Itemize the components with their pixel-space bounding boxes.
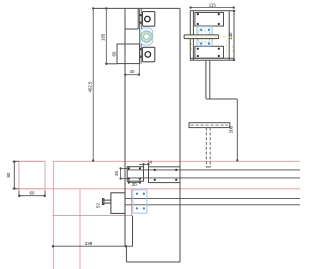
wire red vertical x=80 [79, 189, 81, 269]
wire vertical x=132.5 lower [132, 216, 134, 247]
svg-text:40: 40 [130, 69, 135, 74]
wire column bottom edge [126, 261, 180, 263]
bracket horizontal [206, 98, 237, 100]
wire red horizontal y=161 main [53, 160, 300, 162]
dimension 130 [233, 10, 235, 61]
svg-text:239: 239 [85, 241, 93, 246]
node red square [19, 161, 45, 189]
T bar hidden midline [191, 124, 229, 126]
bearing inner ring [144, 34, 150, 40]
dimension 20 [128, 180, 141, 184]
wire red horizontal y=188.8 [19, 188, 300, 190]
svg-text:165: 165 [100, 33, 105, 41]
right carriage block [149, 167, 181, 183]
bearing outer ring [141, 31, 152, 42]
wire red vertical x=131.5 [131, 189, 133, 216]
svg-text:35: 35 [114, 171, 119, 176]
svg-text:130: 130 [228, 32, 233, 40]
lower motor box [143, 47, 155, 62]
svg-text:200: 200 [228, 125, 233, 133]
arm [184, 35, 219, 39]
wire red horizontal y=215.6 [53, 215, 133, 217]
dimension 14 [139, 164, 150, 167]
svg-text:462.5: 462.5 [88, 81, 93, 93]
svg-text:60: 60 [111, 51, 116, 56]
svg-text:80: 80 [6, 172, 11, 177]
left carriage block [127, 167, 143, 182]
dimension 115 [190, 7, 235, 9]
dimension 165 [106, 8, 108, 65]
upper bracket [125, 8, 138, 29]
dimension 80 [13, 161, 19, 190]
carriage bolts [128, 167, 178, 181]
plate outer [190, 11, 234, 61]
upper bolt rect [195, 13, 224, 27]
upper motor box [143, 12, 155, 27]
bearing bolt circle green [142, 32, 151, 41]
mounting strip [140, 8, 142, 63]
bearing small bolt circles [141, 31, 153, 43]
stem cap [206, 166, 210, 168]
top plate assembly [190, 11, 234, 61]
svg-text:14: 14 [147, 160, 152, 165]
wire column right edge [179, 8, 181, 262]
plate right wall inner [228, 11, 230, 61]
stem upper [206, 60, 210, 98]
rail lines [127, 170, 300, 178]
plate bolts [197, 13, 220, 57]
dimension 35 [120, 168, 128, 180]
dimension 200 [237, 99, 238, 161]
svg-text:60: 60 [30, 191, 35, 196]
wire column left edge [124, 8, 126, 246]
dimension 462.5 [92, 8, 94, 162]
T bar [189, 123, 230, 128]
wire extension to 165 dim [105, 63, 117, 65]
plate left wall inner [192, 11, 194, 61]
wire column bottom box left [125, 246, 127, 262]
upper motor circle [145, 16, 150, 21]
dimension 60 lower [19, 190, 46, 196]
green dashed rect [198, 31, 209, 42]
wire top edge y=8.4 [93, 7, 180, 9]
drive shaft lines [125, 199, 300, 205]
svg-text:20: 20 [132, 182, 137, 187]
wire red vertical x=53.4 [52, 161, 54, 269]
lower rect bottom extension [190, 57, 234, 59]
bearing octagon [140, 28, 152, 45]
wire red horizontal y=161 left segment (square top) [19, 160, 45, 162]
stem hidden dashed [206, 128, 210, 167]
gearbox 52 [102, 193, 125, 214]
dimension 40 [125, 64, 140, 76]
yellow dashed axis lines [187, 37, 234, 54]
svg-text:115: 115 [209, 3, 217, 8]
blue mount plate bottom [133, 190, 147, 213]
lower motor circle [145, 52, 151, 58]
red construction lines [19, 161, 300, 269]
dimension 239 [52, 245, 133, 247]
lower bolt rect [195, 46, 224, 58]
lower bracket [105, 44, 139, 64]
svg-text:52: 52 [96, 203, 101, 208]
bolts on strip [139, 14, 142, 58]
main column [93, 8, 180, 262]
blue mount plate top [197, 27, 212, 46]
